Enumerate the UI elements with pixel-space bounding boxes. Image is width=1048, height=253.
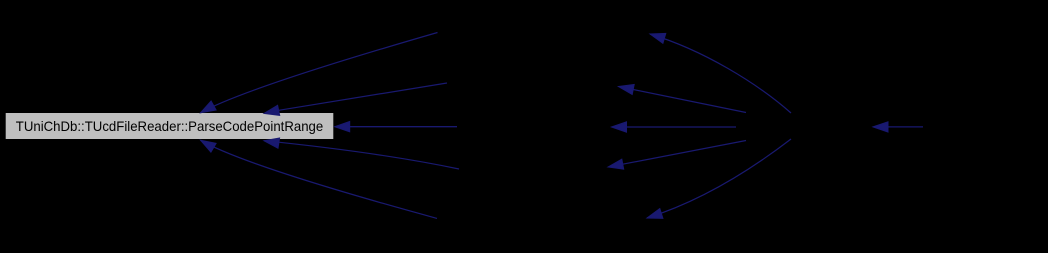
edge e1 (caller row1 -> ParseCodePointRange, curved) xyxy=(201,33,438,113)
edge m3 (hub -> caller row3, horizontal) xyxy=(627,126,737,128)
edge m1 (hub -> caller row1, curved) xyxy=(650,34,791,113)
edge e5 (caller row5 -> ParseCodePointRange, curved) xyxy=(201,140,438,218)
edge m2 (hub -> caller row2) xyxy=(633,90,746,113)
edge e2 (caller row2 -> ParseCodePointRange) xyxy=(279,83,447,110)
edge r1 (root caller -> hub, horizontal) xyxy=(888,126,923,128)
edge m5 (hub -> caller row5, curved) xyxy=(647,139,791,218)
edge m4 (hub -> caller row4) xyxy=(623,141,746,165)
edge e4 (caller row4 -> ParseCodePointRange) xyxy=(264,141,459,169)
node: TUniChDb::TUcdFileReader::ParseCodePointRange (current function, grey box) xyxy=(5,113,334,140)
edge e3 (caller row3 -> ParseCodePointRange, horizontal) xyxy=(350,126,457,128)
svg-text:TUniChDb::TUcdFileReader::Pars: TUniChDb::TUcdFileReader::ParseCodePoint… xyxy=(16,119,324,134)
